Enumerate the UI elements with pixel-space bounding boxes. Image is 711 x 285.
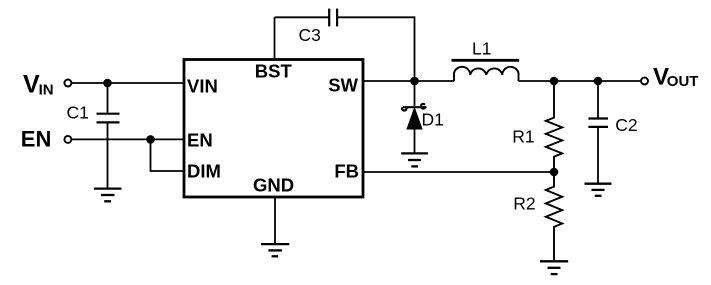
wire L1 to R1 node (518, 80, 554, 82)
ground (R2) (540, 261, 568, 274)
wire C1 stem bottom (107, 124, 109, 189)
node VIN terminal (64, 80, 71, 87)
wire C2 stem top (597, 81, 599, 118)
wire GND pin stub (274, 197, 276, 244)
resistor R2 (546, 172, 562, 261)
ground (IC GND) (261, 244, 289, 256)
wire C3 to SW node (337, 17, 414, 81)
ground (C2) (585, 184, 612, 196)
node FB junction (551, 169, 558, 176)
svg-text:V: V (23, 70, 40, 98)
svg-text:C2: C2 (615, 115, 637, 135)
node VOUT terminal (641, 78, 648, 85)
svg-text:OUT: OUT (667, 73, 699, 90)
wire R1 node to C2 node (554, 80, 598, 82)
node C1 junction (104, 80, 111, 87)
svg-text:C1: C1 (67, 102, 89, 122)
svg-text:L1: L1 (472, 38, 491, 58)
node SW junction (411, 78, 418, 85)
svg-text:GND: GND (253, 175, 294, 196)
inductor L1 core bar (452, 59, 520, 62)
svg-text:R2: R2 (513, 193, 535, 213)
svg-text:IN: IN (39, 82, 54, 99)
wire EN terminal to IC EN pin (72, 138, 184, 140)
svg-text:DIM: DIM (187, 161, 221, 182)
wire FB pin to divider (363, 171, 554, 173)
wire C2 node to VOUT terminal (598, 80, 640, 82)
svg-text:D1: D1 (422, 110, 444, 130)
wire C2 stem bottom (597, 128, 599, 183)
wire BST to C3 (275, 16, 330, 18)
svg-text:BST: BST (255, 61, 293, 82)
ground (C1) (94, 189, 122, 202)
diode D1 schottky cathode bar (402, 104, 426, 111)
wire D1 cathode stem (414, 81, 416, 106)
diode D1 triangle (407, 109, 421, 129)
capacitor C2 (588, 119, 608, 127)
wire D1 anode stem (414, 129, 416, 153)
capacitor C1 (97, 114, 120, 123)
wire junction to DIM pin (151, 139, 185, 171)
svg-text:R1: R1 (512, 126, 534, 146)
svg-text:VIN: VIN (187, 76, 218, 97)
node R1 top junction (551, 78, 558, 85)
wire BST pin stub (274, 17, 276, 59)
wire VIN terminal to IC VIN pin (72, 82, 184, 84)
ground (D1) (401, 153, 428, 166)
svg-text:EN: EN (187, 129, 213, 150)
svg-text:SW: SW (328, 75, 358, 96)
capacitor C3 (329, 9, 337, 27)
resistor R1 (546, 81, 562, 172)
inductor L1 (454, 67, 519, 81)
node EN/DIM junction (147, 136, 154, 143)
svg-text:C3: C3 (299, 25, 321, 45)
node C2 junction (595, 78, 602, 85)
node EN terminal (64, 136, 71, 143)
wire C1 stem top (107, 83, 109, 113)
op-amp U1 IC body (184, 60, 363, 198)
wire SW pin to L1 (363, 80, 454, 82)
svg-text:FB: FB (334, 161, 359, 182)
svg-text:EN: EN (21, 126, 52, 151)
